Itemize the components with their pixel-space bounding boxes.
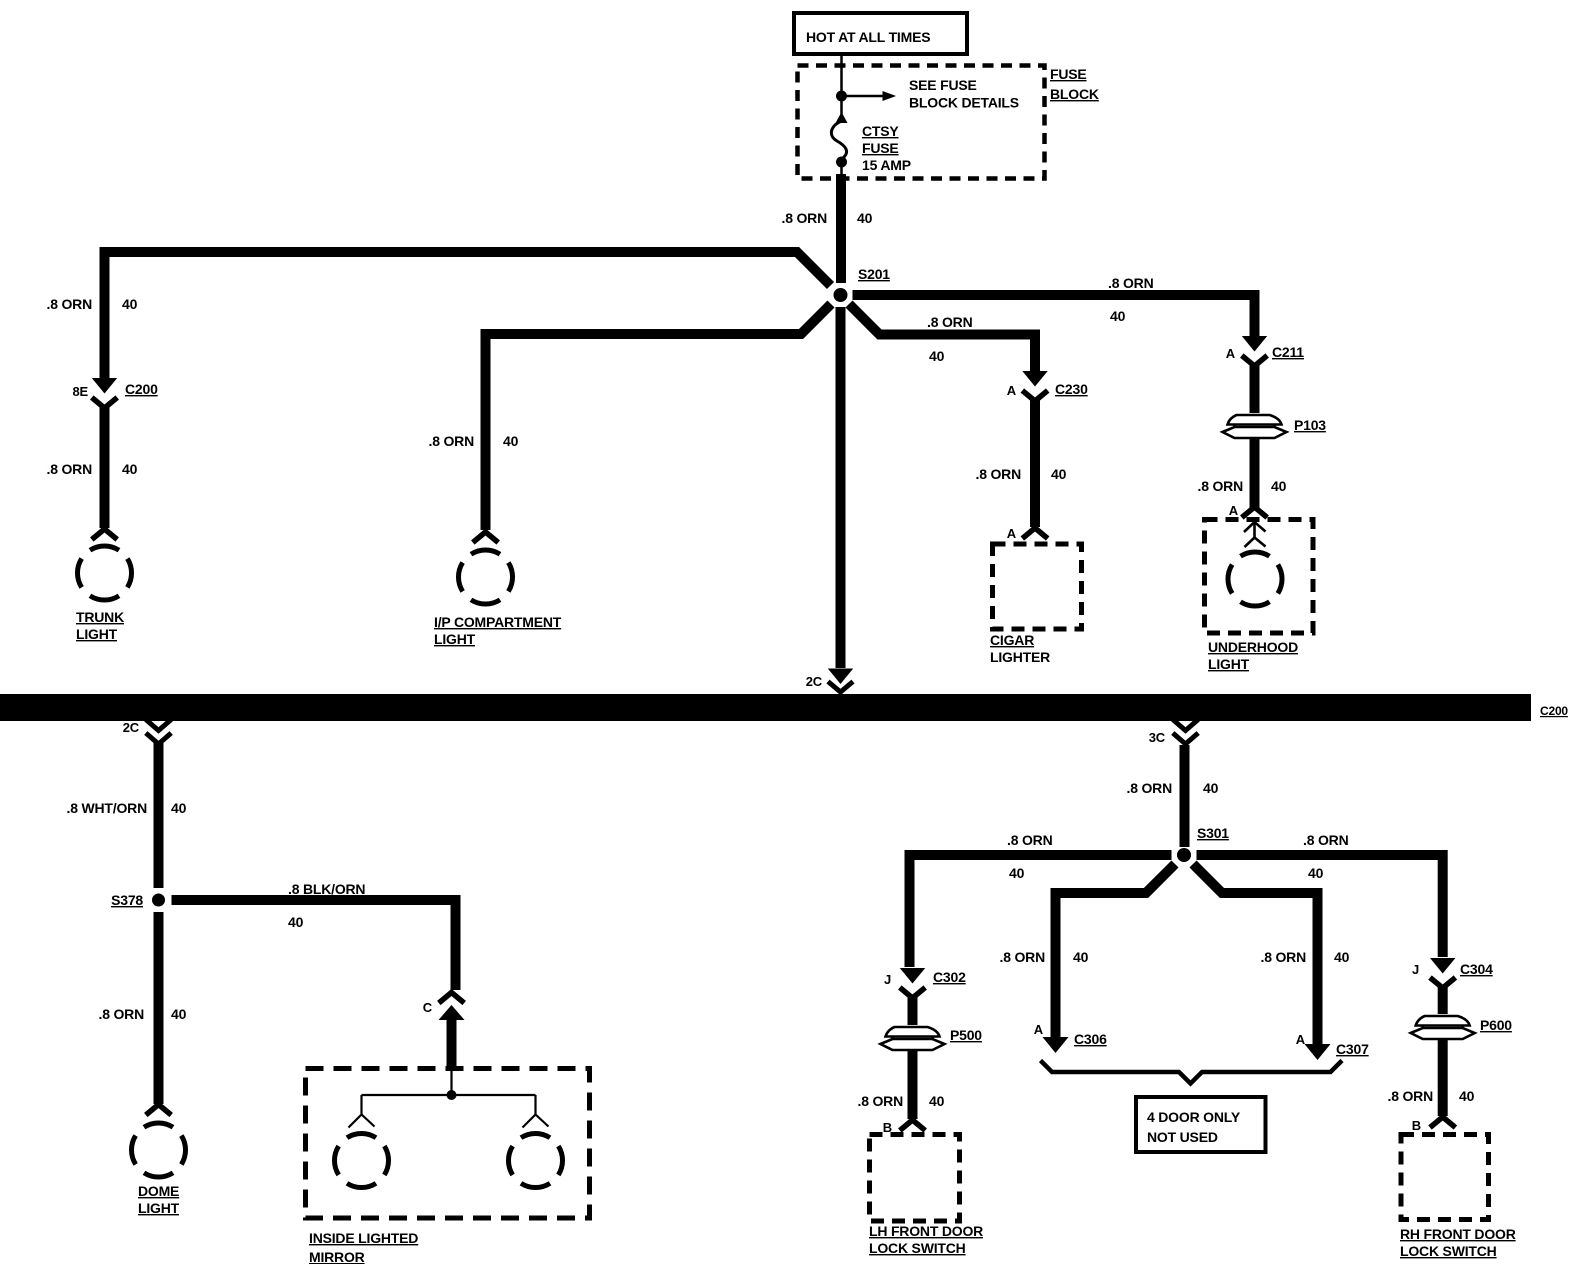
svg-text:.8 ORN: .8 ORN xyxy=(1108,275,1154,291)
label .8 ORN 40 (cigar branch) xyxy=(976,466,1067,482)
svg-text:A: A xyxy=(1226,346,1236,361)
brace 4 door only xyxy=(1041,1061,1343,1084)
wire S301 to C302 branch (left) xyxy=(910,855,1172,967)
label .8 ORN 40 (left outer) xyxy=(1007,832,1053,881)
I/P compartment light bulb xyxy=(434,532,562,647)
LH front door lock switch dashed box xyxy=(869,1135,983,1257)
svg-text:S378: S378 xyxy=(111,892,143,908)
connector C200 bar xyxy=(0,694,1568,721)
svg-text:4 DOOR ONLY: 4 DOOR ONLY xyxy=(1147,1109,1241,1125)
svg-text:J: J xyxy=(1412,962,1419,977)
svg-text:40: 40 xyxy=(171,1006,187,1022)
wire P600 to RH switch xyxy=(1438,1039,1448,1116)
underhood light bulb xyxy=(1208,552,1298,672)
mirror interior wiring xyxy=(362,1068,536,1114)
label .8 BLK/ORN 40 (mirror branch) xyxy=(288,881,365,930)
svg-text:.8 ORN: .8 ORN xyxy=(1198,478,1244,494)
connector C302 xyxy=(884,968,966,998)
svg-text:40: 40 xyxy=(1051,466,1067,482)
svg-text:40: 40 xyxy=(857,210,873,226)
svg-text:40: 40 xyxy=(122,296,138,312)
svg-text:B: B xyxy=(1412,1118,1421,1133)
pin A cigar lighter xyxy=(1007,526,1048,541)
svg-text:40: 40 xyxy=(1110,308,1126,324)
svg-text:LIGHT: LIGHT xyxy=(434,631,476,647)
svg-text:.8 ORN: .8 ORN xyxy=(99,1006,145,1022)
pin B LH switch xyxy=(883,1120,925,1135)
label .8 ORN 40 (3C branch) xyxy=(1127,780,1219,796)
svg-text:.8 ORN: .8 ORN xyxy=(1388,1088,1434,1104)
svg-text:P600: P600 xyxy=(1480,1017,1512,1033)
svg-text:C230: C230 xyxy=(1055,381,1088,397)
label .8 ORN 40 (LH switch) xyxy=(858,1093,945,1109)
label .8 ORN 40 (inner left) xyxy=(1000,949,1089,965)
svg-text:3C: 3C xyxy=(1149,730,1166,745)
underhood light interior connector xyxy=(1244,522,1266,548)
wire C211 to P103 xyxy=(1250,365,1260,416)
svg-text:P500: P500 xyxy=(950,1027,982,1043)
svg-text:LOCK SWITCH: LOCK SWITCH xyxy=(869,1240,966,1256)
svg-text:.8 ORN: .8 ORN xyxy=(858,1093,904,1109)
label .8 ORN 40 (fuse output) xyxy=(782,210,873,226)
svg-text:40: 40 xyxy=(929,348,945,364)
dome light bulb xyxy=(131,1105,185,1217)
connector 3C chevrons below bar xyxy=(1173,720,1198,745)
svg-text:40: 40 xyxy=(1009,865,1025,881)
svg-text:S301: S301 xyxy=(1197,825,1229,841)
label inside lighted mirror xyxy=(309,1230,418,1264)
label .8 ORN 40 (dome branch) xyxy=(99,1006,187,1022)
svg-text:INSIDE LIGHTED: INSIDE LIGHTED xyxy=(309,1230,418,1246)
svg-text:A: A xyxy=(1229,503,1239,518)
svg-text:C306: C306 xyxy=(1074,1031,1107,1047)
svg-text:MIRROR: MIRROR xyxy=(309,1249,365,1264)
svg-text:40: 40 xyxy=(1271,478,1287,494)
svg-text:.8 ORN: .8 ORN xyxy=(927,314,973,330)
svg-text:.8 ORN: .8 ORN xyxy=(47,296,93,312)
wire 2C to S378 xyxy=(154,743,164,888)
label .8 WHT/ORN 40 xyxy=(67,800,187,816)
svg-text:40: 40 xyxy=(288,914,304,930)
wire S301 to C307 branch (inner right) xyxy=(1193,864,1318,1044)
svg-text:NOT USED: NOT USED xyxy=(1147,1129,1218,1145)
svg-text:.8 ORN: .8 ORN xyxy=(782,210,828,226)
underhood light dashed box xyxy=(1205,520,1314,634)
grommet P500 xyxy=(880,1025,983,1052)
connector C304 xyxy=(1412,958,1493,988)
svg-text:.8 ORN: .8 ORN xyxy=(1303,832,1349,848)
svg-text:LIGHTER: LIGHTER xyxy=(990,649,1050,665)
inside lighted mirror dashed box xyxy=(306,1069,590,1219)
svg-text:LIGHT: LIGHT xyxy=(1208,656,1250,672)
RH front door lock switch dashed box xyxy=(1400,1135,1516,1260)
label .8 ORN 40 (right branch) xyxy=(1108,275,1154,324)
svg-text:2C: 2C xyxy=(806,674,823,689)
svg-text:J: J xyxy=(884,972,891,987)
svg-text:HOT AT ALL TIMES: HOT AT ALL TIMES xyxy=(806,29,930,45)
svg-text:A: A xyxy=(1296,1032,1306,1047)
svg-text:BLOCK: BLOCK xyxy=(1050,86,1099,102)
svg-text:C304: C304 xyxy=(1460,961,1493,977)
svg-text:C200: C200 xyxy=(125,381,158,397)
svg-text:.8 WHT/ORN: .8 WHT/ORN xyxy=(67,800,148,816)
connector C211 (underhood branch) xyxy=(1226,336,1305,366)
svg-text:C: C xyxy=(423,1000,433,1015)
svg-text:LH FRONT DOOR: LH FRONT DOOR xyxy=(869,1223,983,1239)
wire C230 to cigar lighter xyxy=(1030,400,1040,527)
svg-text:C211: C211 xyxy=(1272,344,1304,360)
wire P500 to LH switch xyxy=(908,1050,918,1119)
svg-text:C302: C302 xyxy=(933,969,966,985)
connector 2C chevrons below bar xyxy=(146,720,171,745)
svg-text:40: 40 xyxy=(171,800,187,816)
svg-text:.8 ORN: .8 ORN xyxy=(1261,949,1307,965)
wire C304 to P600 xyxy=(1438,987,1448,1018)
svg-text:40: 40 xyxy=(1459,1088,1475,1104)
svg-text:.8 ORN: .8 ORN xyxy=(1007,832,1053,848)
svg-text:LOCK SWITCH: LOCK SWITCH xyxy=(1400,1243,1497,1259)
wire S201 to cigar lighter branch (lower right) xyxy=(849,304,1035,371)
svg-text:LIGHT: LIGHT xyxy=(76,626,118,642)
wire 3C to S301 xyxy=(1180,745,1190,847)
pin A underhood light xyxy=(1229,503,1267,518)
svg-text:C307: C307 xyxy=(1336,1041,1369,1057)
svg-text:15 AMP: 15 AMP xyxy=(862,157,911,173)
node HOT AT ALL TIMES box xyxy=(794,13,967,54)
svg-text:A: A xyxy=(1007,526,1017,541)
svg-text:8E: 8E xyxy=(72,384,88,399)
wire S201 to trunk light branch (upper left) xyxy=(105,252,831,378)
fuse CTSY FUSE 15 AMP xyxy=(831,101,910,176)
svg-text:P103: P103 xyxy=(1294,417,1326,433)
svg-text:40: 40 xyxy=(122,461,138,477)
label .8 ORN 40 (I/P branch) xyxy=(429,433,519,449)
label .8 ORN 40 (underhood branch) xyxy=(1198,478,1287,494)
svg-text:40: 40 xyxy=(1203,780,1219,796)
svg-text:SEE FUSE: SEE FUSE xyxy=(909,77,977,93)
wire from HOT box into fuse block xyxy=(840,54,843,93)
wire C302 to P500 xyxy=(908,997,918,1028)
svg-text:40: 40 xyxy=(1308,865,1324,881)
trunk light bulb xyxy=(76,529,132,642)
connector C (inside lighted mirror) xyxy=(423,993,465,1070)
svg-text:.8 ORN: .8 ORN xyxy=(429,433,475,449)
svg-text:.8 ORN: .8 ORN xyxy=(1127,780,1173,796)
svg-text:I/P COMPARTMENT: I/P COMPARTMENT xyxy=(434,614,562,630)
svg-text:FUSE: FUSE xyxy=(862,140,899,156)
svg-text:RH FRONT DOOR: RH FRONT DOOR xyxy=(1400,1226,1516,1242)
label .8 ORN 40 (lower right branch) xyxy=(927,314,973,364)
wire S301 to C306 branch (inner left) xyxy=(1056,864,1176,1037)
svg-text:40: 40 xyxy=(1073,949,1089,965)
splice S378 xyxy=(111,892,165,908)
svg-text:40: 40 xyxy=(1334,949,1350,965)
splice S301 xyxy=(1177,825,1229,862)
svg-text:A: A xyxy=(1007,383,1017,398)
wire C200 to trunk light xyxy=(100,407,110,528)
svg-text:CTSY: CTSY xyxy=(862,123,899,139)
svg-text:TRUNK: TRUNK xyxy=(76,609,124,625)
cigar lighter dashed box xyxy=(990,544,1082,665)
label .8 ORN 40 (right outer) xyxy=(1303,832,1349,881)
connector C307 xyxy=(1296,1032,1369,1060)
label .8 ORN 40 (inner right) xyxy=(1261,949,1350,965)
svg-text:40: 40 xyxy=(929,1093,945,1109)
svg-text:CIGAR: CIGAR xyxy=(990,632,1034,648)
svg-text:LIGHT: LIGHT xyxy=(138,1200,180,1216)
connector arrow into C200 bar xyxy=(828,669,853,693)
splice S201 xyxy=(834,266,891,302)
wire S378 to mirror branch xyxy=(172,900,456,990)
wire S201 to I/P compartment light branch (lower left) xyxy=(486,304,832,530)
connector C230 (cigar branch) xyxy=(1007,371,1088,401)
svg-text:.8 ORN: .8 ORN xyxy=(47,461,93,477)
svg-text:.8 BLK/ORN: .8 BLK/ORN xyxy=(288,881,365,897)
wire fuse to S201 xyxy=(836,174,846,283)
label .8 ORN 40 (trunk branch lower) xyxy=(47,461,138,477)
wire see-fuse-block-details arrow xyxy=(842,77,1019,111)
label .8 ORN 40 (RH switch) xyxy=(1388,1088,1475,1104)
wire S378 to dome light xyxy=(154,912,164,1104)
fuse block dashed box xyxy=(798,66,1099,179)
svg-text:.8 ORN: .8 ORN xyxy=(1000,949,1046,965)
wire S301 to C304 branch (right) xyxy=(1197,855,1443,957)
mirror interior junction xyxy=(447,1090,457,1100)
grommet P600 xyxy=(1410,1014,1513,1041)
svg-text:40: 40 xyxy=(503,433,519,449)
node 4 DOOR ONLY NOT USED box xyxy=(1136,1097,1266,1152)
connector C200 8E (trunk branch) xyxy=(72,378,158,408)
svg-text:DOME: DOME xyxy=(138,1183,179,1199)
wire S201 to underhood light branch (right) xyxy=(853,295,1255,336)
svg-text:FUSE: FUSE xyxy=(1050,66,1087,82)
pin B RH switch xyxy=(1412,1117,1456,1133)
wire S201 down to C200 bar xyxy=(836,307,846,668)
svg-text:2C: 2C xyxy=(123,720,140,735)
connector C306 xyxy=(1034,1022,1107,1053)
wire P103 to underhood light xyxy=(1250,438,1260,508)
mirror right bulb xyxy=(508,1115,562,1188)
svg-text:UNDERHOOD: UNDERHOOD xyxy=(1208,639,1298,655)
mirror left bulb xyxy=(334,1115,388,1188)
grommet P103 xyxy=(1222,413,1327,440)
svg-text:A: A xyxy=(1034,1022,1044,1037)
svg-text:C200: C200 xyxy=(1540,704,1568,718)
svg-text:BLOCK DETAILS: BLOCK DETAILS xyxy=(909,95,1019,111)
label .8 ORN 40 (trunk branch upper) xyxy=(47,296,138,312)
svg-text:S201: S201 xyxy=(858,266,890,282)
node fuse block tap junction xyxy=(836,91,847,102)
svg-text:.8 ORN: .8 ORN xyxy=(976,466,1022,482)
